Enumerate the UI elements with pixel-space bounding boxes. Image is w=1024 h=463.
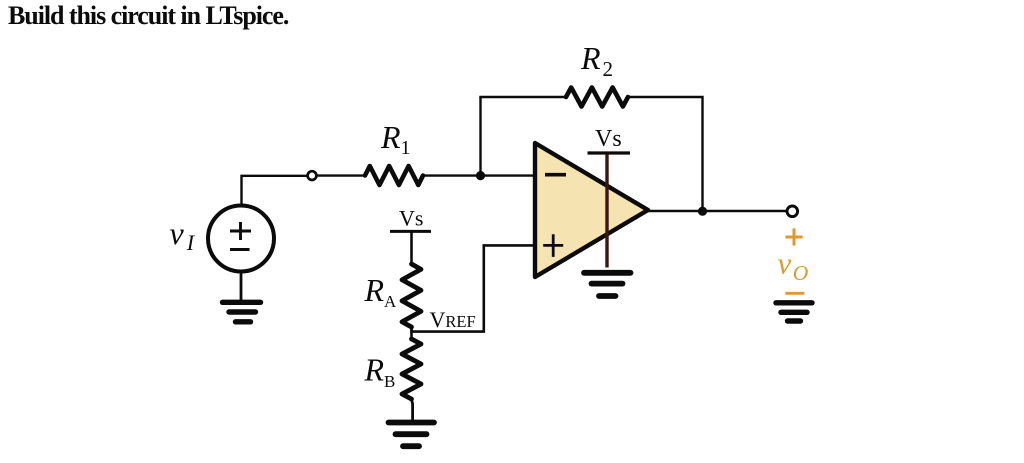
op-amp non-inverting input plus sign (543, 234, 563, 257)
ground (divider) (389, 423, 435, 447)
wire junction up to feedback branch (479, 97, 481, 176)
op-amp U1 (535, 143, 648, 277)
resistor R1 (365, 166, 423, 185)
wire supply stem through op-amp (dark) (605, 155, 608, 268)
ground (op-amp) (584, 273, 631, 296)
ground (source) (223, 302, 261, 322)
svg-text:Build this circuit in LTspice.: Build this circuit in LTspice. (8, 1, 289, 30)
source minus sign (230, 248, 250, 251)
label minus (output polarity, orange) (785, 292, 804, 295)
wire from op-amp output to output terminal (648, 210, 786, 212)
wire from R1 to op-amp inverting input (423, 174, 535, 176)
svg-text:vI: vI (170, 215, 196, 255)
wire from R2 to output node (628, 97, 703, 211)
resistor RB (402, 339, 421, 399)
wire from input terminal to R1 (318, 174, 366, 176)
svg-text:RA: RA (364, 272, 398, 311)
node output junction dot (698, 207, 707, 216)
source vI (circle) (208, 206, 274, 272)
node input terminal (open circle) (308, 171, 317, 180)
wire from source to ground (240, 271, 243, 301)
svg-text:R2: R2 (580, 40, 613, 81)
ground (output) (776, 303, 812, 321)
node VREF junction and wire to op-amp + input (412, 245, 536, 331)
node output terminal (open circle) (787, 206, 798, 217)
power Vs bar (divider supply) (390, 230, 431, 233)
wire Vs bar to RA (410, 231, 413, 264)
source plus sign (230, 222, 251, 240)
svg-text:VREF: VREF (430, 307, 476, 332)
svg-text:vO: vO (778, 246, 809, 286)
wire RA-RB junction continuity (410, 327, 413, 339)
power Vs bar (op-amp supply) (588, 151, 631, 154)
svg-text:Vs: Vs (595, 126, 622, 152)
resistor R2 (566, 88, 628, 107)
svg-text:R1: R1 (380, 119, 411, 159)
resistor RA (402, 264, 421, 327)
wire RB to ground (412, 399, 413, 420)
svg-text:RB: RB (364, 352, 396, 392)
svg-text:Vs: Vs (399, 206, 423, 231)
op-amp inverting input minus sign (545, 173, 566, 177)
wire from source vI up and right to input terminal (242, 176, 307, 205)
wire feedback top-left to R2 (479, 96, 566, 98)
label + (output polarity, orange) (785, 228, 802, 245)
node A (inverting input junction dot) (476, 171, 485, 180)
